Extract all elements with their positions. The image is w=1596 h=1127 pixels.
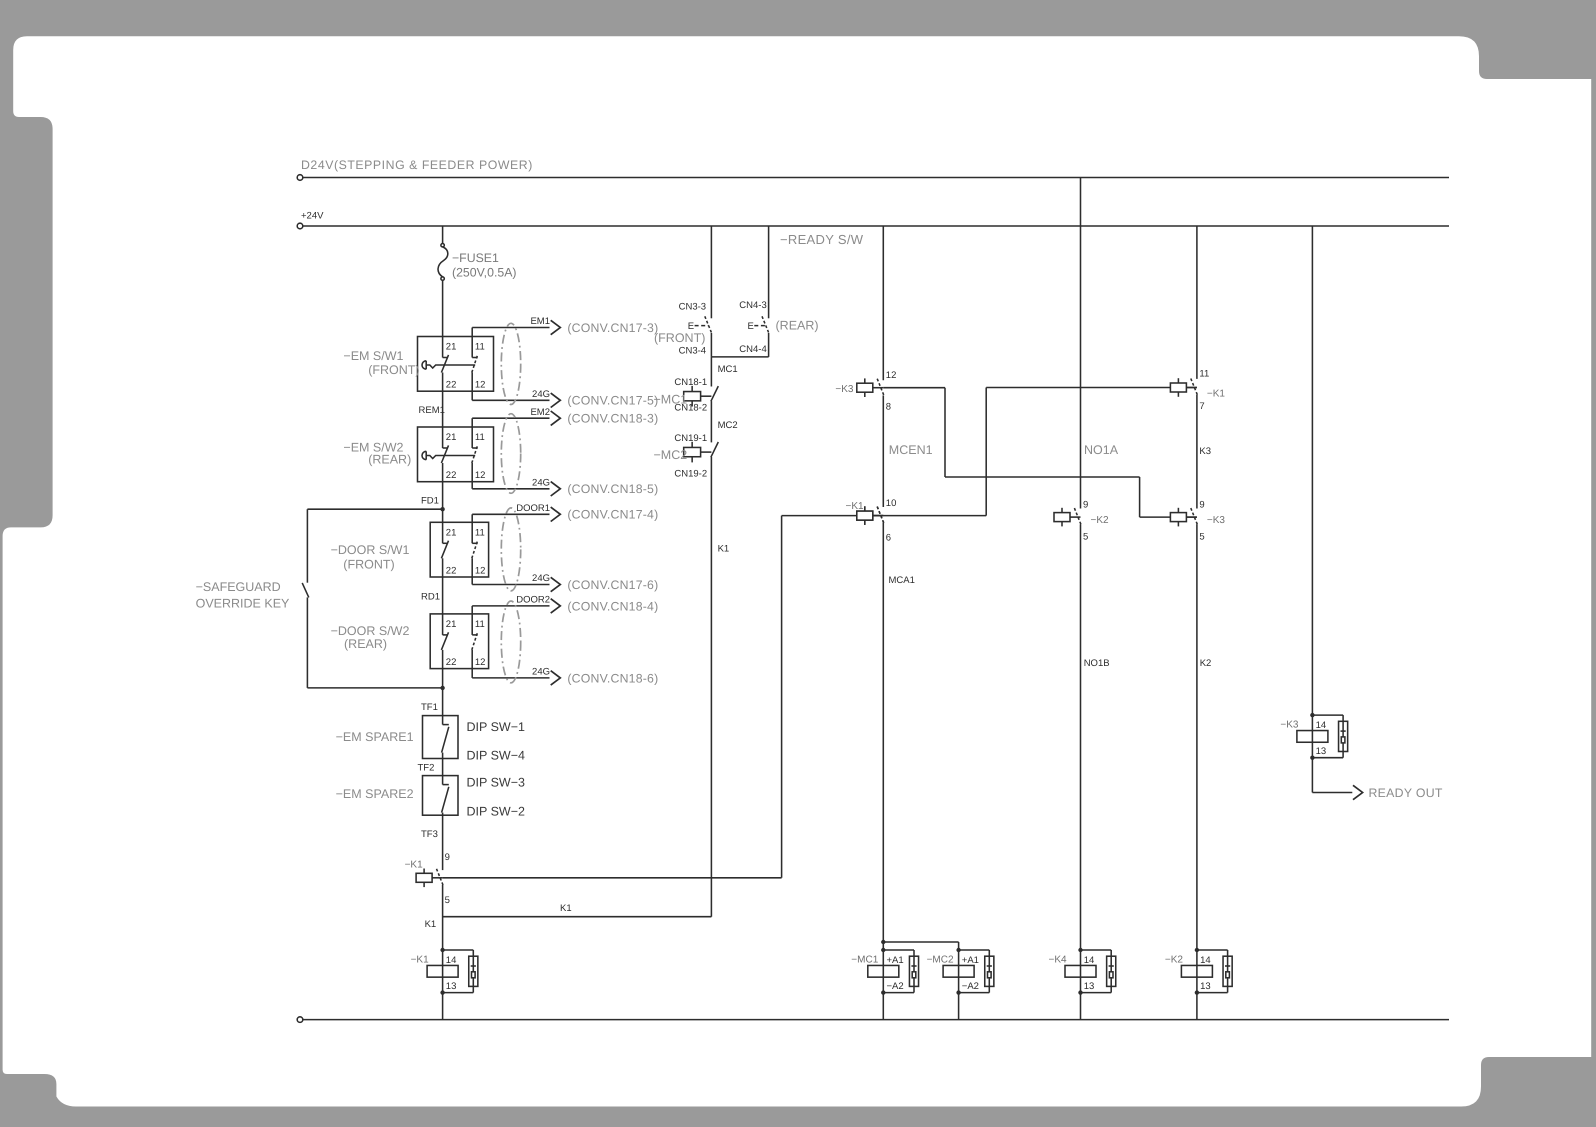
svg-text:TF1: TF1: [421, 702, 438, 713]
svg-text:−K3: −K3: [835, 384, 854, 395]
svg-text:CN18-1: CN18-1: [674, 377, 707, 388]
svg-text:6: 6: [886, 533, 891, 544]
svg-text:DIP SW−2: DIP SW−2: [467, 804, 526, 818]
svg-text:TF3: TF3: [421, 829, 438, 840]
svg-text:NO1A: NO1A: [1084, 443, 1119, 457]
svg-text:11: 11: [475, 432, 485, 443]
svg-text:13: 13: [1316, 746, 1327, 757]
svg-text:5: 5: [445, 895, 450, 906]
svg-text:11: 11: [475, 527, 485, 538]
svg-text:21: 21: [446, 527, 457, 538]
svg-text:−K1: −K1: [846, 501, 865, 512]
svg-text:MC1: MC1: [718, 364, 738, 375]
svg-text:9: 9: [1199, 500, 1204, 511]
svg-text:D24V(STEPPING & FEEDER POWER): D24V(STEPPING & FEEDER POWER): [301, 158, 533, 172]
svg-text:K3: K3: [1199, 446, 1211, 457]
svg-text:−K2: −K2: [1091, 515, 1110, 526]
svg-text:(REAR): (REAR): [344, 637, 387, 651]
svg-text:DOOR1: DOOR1: [516, 503, 550, 514]
svg-text:EM2: EM2: [530, 407, 550, 418]
svg-text:13: 13: [446, 981, 457, 992]
svg-text:−EM SPARE1: −EM SPARE1: [336, 730, 414, 744]
svg-text:DOOR2: DOOR2: [516, 595, 550, 606]
svg-text:11: 11: [475, 342, 485, 353]
svg-text:21: 21: [446, 432, 457, 443]
svg-text:CN19-1: CN19-1: [674, 433, 707, 444]
svg-text:(FRONT): (FRONT): [343, 557, 394, 571]
svg-text:K2: K2: [1200, 658, 1212, 669]
svg-text:21: 21: [446, 342, 457, 353]
svg-text:MCA1: MCA1: [889, 575, 915, 586]
svg-text:−MC2: −MC2: [654, 448, 688, 462]
svg-text:−K3: −K3: [1280, 720, 1299, 731]
svg-text:−K1: −K1: [405, 859, 424, 870]
svg-text:NO1B: NO1B: [1084, 658, 1110, 669]
svg-text:TF2: TF2: [418, 763, 435, 774]
svg-text:−A2: −A2: [887, 981, 904, 992]
svg-text:E: E: [748, 321, 754, 332]
svg-text:−K1: −K1: [1207, 388, 1226, 399]
svg-text:22: 22: [446, 565, 457, 576]
svg-text:−SAFEGUARD: −SAFEGUARD: [196, 580, 281, 594]
svg-text:12: 12: [886, 370, 897, 381]
svg-text:−MC1: −MC1: [851, 955, 878, 966]
svg-text:12: 12: [475, 380, 486, 391]
svg-text:(CONV.CN17-4): (CONV.CN17-4): [567, 508, 658, 522]
svg-text:MCEN1: MCEN1: [889, 443, 933, 457]
svg-text:DIP SW−1: DIP SW−1: [467, 720, 526, 734]
svg-text:14: 14: [1200, 955, 1211, 966]
svg-text:−EM SPARE2: −EM SPARE2: [336, 787, 414, 801]
svg-text:MC2: MC2: [718, 420, 738, 431]
svg-text:CN4-4: CN4-4: [739, 344, 766, 355]
svg-text:−K2: −K2: [1165, 955, 1184, 966]
svg-text:24G: 24G: [532, 389, 550, 400]
svg-text:12: 12: [475, 565, 486, 576]
svg-text:(CONV.CN18-5): (CONV.CN18-5): [567, 482, 658, 496]
svg-text:EM1: EM1: [530, 316, 550, 327]
svg-text:−K1: −K1: [411, 955, 430, 966]
svg-text:(CONV.CN18-3): (CONV.CN18-3): [567, 412, 658, 426]
svg-text:−MC2: −MC2: [927, 955, 954, 966]
svg-text:CN3-4: CN3-4: [679, 346, 706, 357]
svg-text:(CONV.CN17-6): (CONV.CN17-6): [567, 578, 658, 592]
svg-text:RD1: RD1: [421, 591, 440, 602]
svg-text:−A2: −A2: [962, 981, 979, 992]
svg-text:11: 11: [475, 619, 485, 630]
svg-text:24G: 24G: [532, 477, 550, 488]
svg-text:5: 5: [1083, 532, 1088, 543]
svg-text:9: 9: [445, 852, 450, 863]
svg-text:(CONV.CN18-6): (CONV.CN18-6): [567, 671, 658, 685]
svg-text:K1: K1: [425, 919, 437, 930]
svg-text:(250V,0.5A): (250V,0.5A): [452, 265, 517, 279]
svg-text:9: 9: [1083, 500, 1088, 511]
svg-text:24G: 24G: [532, 573, 550, 584]
svg-text:−MC1: −MC1: [654, 392, 688, 406]
svg-text:(FRONT): (FRONT): [368, 363, 419, 377]
svg-text:10: 10: [886, 498, 897, 509]
svg-text:+A1: +A1: [887, 955, 904, 966]
svg-text:21: 21: [446, 619, 457, 630]
svg-text:OVERRIDE KEY: OVERRIDE KEY: [196, 597, 290, 611]
svg-text:22: 22: [446, 470, 457, 481]
svg-text:12: 12: [475, 657, 486, 668]
svg-text:K1: K1: [560, 903, 572, 914]
svg-text:CN4-3: CN4-3: [739, 300, 766, 311]
svg-text:−READY S/W: −READY S/W: [780, 232, 864, 247]
svg-text:(CONV.CN17-3): (CONV.CN17-3): [567, 321, 658, 335]
svg-text:FD1: FD1: [421, 495, 439, 506]
svg-text:22: 22: [446, 657, 457, 668]
svg-text:7: 7: [1199, 401, 1204, 412]
svg-text:12: 12: [475, 470, 486, 481]
svg-text:READY OUT: READY OUT: [1369, 786, 1443, 800]
svg-text:REM1: REM1: [419, 405, 445, 416]
svg-text:22: 22: [446, 380, 457, 391]
svg-text:13: 13: [1200, 981, 1211, 992]
svg-text:(CONV.CN18-4): (CONV.CN18-4): [567, 599, 658, 613]
svg-text:K1: K1: [718, 543, 730, 554]
svg-text:+24V: +24V: [301, 211, 324, 222]
svg-text:24G: 24G: [532, 667, 550, 678]
svg-text:5: 5: [1199, 532, 1204, 543]
svg-text:−K3: −K3: [1207, 515, 1226, 526]
svg-text:(REAR): (REAR): [368, 453, 411, 467]
svg-text:−FUSE1: −FUSE1: [452, 251, 499, 265]
svg-text:−K4: −K4: [1049, 955, 1068, 966]
svg-text:DIP SW−4: DIP SW−4: [467, 748, 526, 762]
svg-text:11: 11: [1199, 368, 1209, 379]
svg-text:+A1: +A1: [962, 955, 979, 966]
svg-text:CN19-2: CN19-2: [674, 468, 707, 479]
svg-text:14: 14: [1316, 720, 1327, 731]
svg-text:(FRONT): (FRONT): [654, 331, 705, 345]
svg-text:DIP SW−3: DIP SW−3: [467, 775, 526, 789]
svg-text:−DOOR S/W1: −DOOR S/W1: [331, 543, 410, 557]
svg-text:14: 14: [446, 955, 457, 966]
svg-text:8: 8: [886, 402, 891, 413]
svg-text:14: 14: [1084, 955, 1095, 966]
svg-text:−EM S/W1: −EM S/W1: [343, 349, 403, 363]
svg-text:13: 13: [1084, 981, 1095, 992]
svg-text:(CONV.CN17-5): (CONV.CN17-5): [567, 394, 658, 408]
svg-text:(REAR): (REAR): [776, 318, 819, 332]
svg-text:CN3-3: CN3-3: [679, 301, 706, 312]
svg-text:−DOOR S/W2: −DOOR S/W2: [331, 624, 410, 638]
